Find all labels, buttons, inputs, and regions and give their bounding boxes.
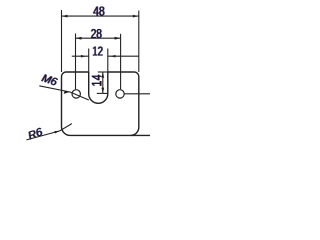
dim 14 line xyxy=(102,72,104,93)
dim 48 extension line right xyxy=(138,11,140,73)
dim 48 line xyxy=(62,15,139,17)
label M6 (thread callout) xyxy=(40,72,60,89)
arrowhead 12 left (outside, pointing right, detached) xyxy=(81,55,86,58)
arrowhead 12 right (outside, pointing left, detached) xyxy=(110,55,115,58)
dim text 12 xyxy=(92,44,104,59)
bottom edge extension to right image border xyxy=(131,134,150,136)
dim 48 extension line left xyxy=(61,10,63,72)
arrowhead 48 right xyxy=(133,15,139,18)
svg-text:48: 48 xyxy=(93,3,105,18)
dim 12 line right tail xyxy=(108,55,139,57)
dim text 14 (rotated 90 ccw) xyxy=(89,74,105,86)
dim 28 line xyxy=(76,37,121,39)
hole left (M6 tapped) xyxy=(72,90,80,98)
dim 28 extension line left xyxy=(75,34,77,90)
arrowhead 48 left xyxy=(62,15,68,18)
arrowhead 14 bottom (pointing down) xyxy=(101,88,104,94)
arrowhead 28 right xyxy=(115,37,121,40)
hole right xyxy=(116,90,124,98)
svg-text:12: 12 xyxy=(92,44,103,59)
dim 28 extension line right xyxy=(120,34,122,89)
dim 14 top extension tick xyxy=(98,71,108,73)
dim 12 extension line left (slot left edge extended) xyxy=(88,49,90,73)
centerline from right hole to image edge xyxy=(125,93,150,95)
dim 12 line left tail xyxy=(72,55,89,57)
dim 14 bottom extension tick (slot arc center level) xyxy=(97,92,108,94)
svg-text:14: 14 xyxy=(89,74,104,86)
leader line R6 xyxy=(27,124,72,140)
dim text 28 xyxy=(90,26,102,41)
dim 12 extension line right (slot right edge extended) xyxy=(107,49,109,73)
arrowhead M6 leader xyxy=(64,91,70,94)
dim text 48 xyxy=(93,3,106,18)
leader line M6 xyxy=(39,86,89,100)
plate outline with top slot xyxy=(62,72,139,135)
label R6 (corner radius callout) xyxy=(26,126,45,143)
svg-text:28: 28 xyxy=(91,26,102,41)
arrowhead 28 left xyxy=(76,37,82,40)
arrowhead R6 leader xyxy=(54,131,59,134)
arrowhead 14 top (pointing up) xyxy=(101,72,104,78)
